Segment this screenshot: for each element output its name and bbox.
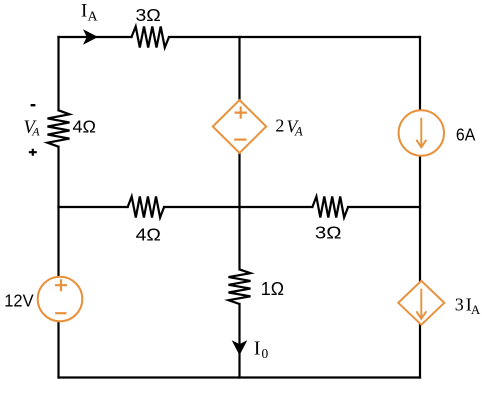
wire left top segment — [57, 37, 59, 110]
wire middle vertical top segment — [238, 37, 240, 100]
wire right bottom segment — [419, 325, 421, 378]
wire right top segment — [419, 37, 421, 111]
resistor 4ohm left — [48, 110, 70, 146]
current arrow I0 on middle vertical wire — [232, 340, 248, 355]
dependent current source 3IA diamond — [398, 281, 444, 325]
svg-text:2: 2 — [275, 115, 284, 135]
svg-text:6A: 6A — [456, 125, 476, 145]
resistor 1ohm middle vertical — [229, 269, 251, 304]
voltage source 12V circle — [38, 277, 83, 322]
plus inside 12V — [55, 279, 67, 291]
wire top-left segment — [59, 36, 132, 38]
arrow inside 3IA — [416, 289, 426, 319]
wire top-right segment — [169, 36, 420, 38]
minus inside 12V — [55, 312, 66, 314]
current arrow IA on top wire — [83, 29, 98, 45]
wire middle vertical segment between diamond and center node — [238, 153, 240, 270]
wire right middle segment — [419, 155, 421, 281]
current source 6A circle — [399, 110, 444, 155]
svg-text:I: I — [81, 1, 87, 22]
resistor 3ohm middle right — [312, 197, 348, 218]
svg-text:A: A — [88, 10, 99, 25]
plus inside 2VA — [235, 106, 247, 118]
svg-text:3Ω: 3Ω — [136, 5, 161, 25]
wire middle horizontal left segment — [59, 206, 128, 208]
svg-text:A: A — [31, 125, 40, 139]
dependent voltage source 2VA diamond — [213, 100, 266, 153]
svg-text:3: 3 — [455, 294, 464, 314]
svg-text:3Ω: 3Ω — [315, 222, 342, 242]
wire bottom — [59, 376, 421, 378]
svg-text:A: A — [294, 125, 303, 139]
resistor 3ohm top — [132, 27, 170, 48]
svg-text:4Ω: 4Ω — [136, 224, 161, 244]
minus inside 2VA — [234, 139, 246, 141]
svg-text:12V: 12V — [4, 291, 34, 311]
svg-text:1Ω: 1Ω — [261, 278, 284, 299]
svg-text:0: 0 — [262, 346, 269, 361]
svg-text:A: A — [471, 302, 481, 317]
svg-text:I: I — [254, 338, 261, 360]
wire left middle segment — [57, 147, 59, 277]
plus mark below VA — [29, 149, 37, 156]
minus mark above VA — [31, 104, 36, 106]
svg-text:4Ω: 4Ω — [73, 117, 97, 137]
wire middle horizontal center segment — [164, 206, 312, 208]
wire middle horizontal right segment — [348, 206, 420, 208]
resistor 4ohm middle — [128, 197, 164, 218]
wire left bottom segment — [57, 322, 59, 378]
wire middle vertical bottom segment — [238, 304, 240, 378]
arrow inside 6A — [416, 118, 426, 148]
